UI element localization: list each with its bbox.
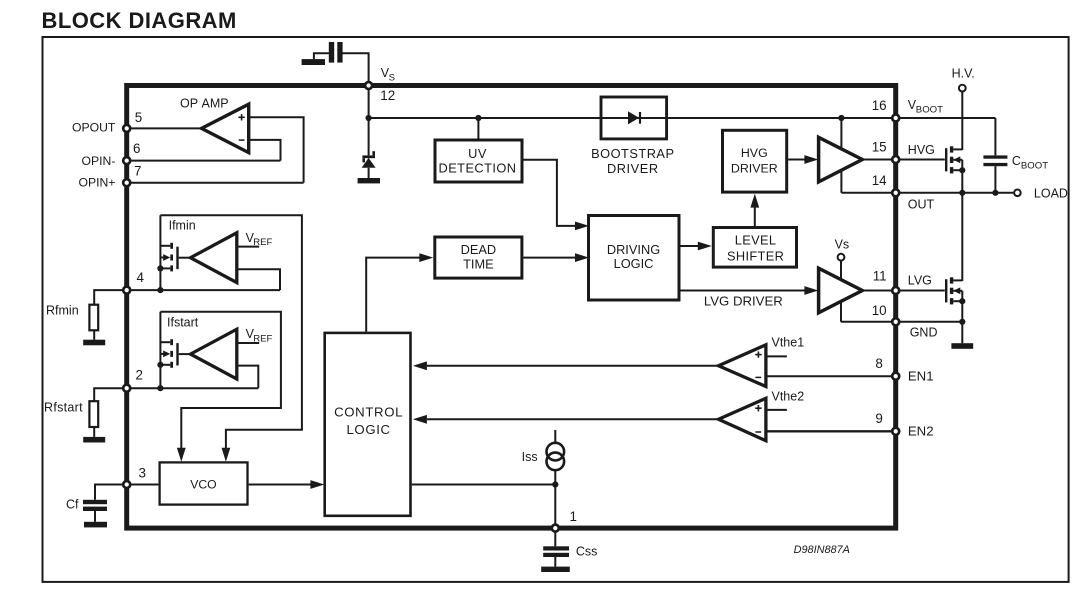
wire pin 7 line [127, 182, 304, 184]
op-amp + sign [238, 117, 244, 119]
terminal LOAD [1014, 190, 1021, 197]
wire driving-logic to level-shifter [681, 245, 699, 247]
svg-text:REF: REF [253, 333, 272, 344]
resistor Rfstart [89, 401, 98, 427]
svg-text:Rfstart: Rfstart [44, 400, 83, 414]
svg-text:6: 6 [133, 141, 140, 156]
terminal H.V. [959, 85, 966, 92]
block level-shifter box [713, 228, 796, 268]
svg-text:OP AMP: OP AMP [180, 97, 229, 111]
buffer LVG triangle [819, 268, 863, 313]
svg-text:LOGIC: LOGIC [614, 256, 654, 271]
svg-text:Css: Css [576, 544, 598, 558]
wire Iss stem [554, 430, 556, 443]
wire UV-detection to driving-logic [524, 160, 576, 226]
op-amp (OP AMP) triangle [202, 104, 249, 152]
transistor Q1 source lead [953, 169, 962, 171]
comparator Ifstart triangle [191, 329, 237, 379]
comparator Ifmin triangle [191, 233, 237, 283]
svg-text:OPIN+: OPIN+ [78, 176, 115, 190]
svg-text:BOOT: BOOT [916, 105, 943, 116]
wire VCO output to control-logic [249, 484, 311, 486]
svg-text:C: C [1012, 154, 1021, 168]
pin 5 (OPOUT) [123, 125, 130, 132]
svg-text:2: 2 [136, 367, 143, 382]
pin 3 [123, 481, 130, 488]
wire Ifstart box outline / feedback to VCO [160, 312, 281, 449]
ground (Rfmin) [83, 340, 105, 346]
wire Ifstart comparator Vref stub [237, 342, 259, 344]
wire Cboot top lead [994, 118, 996, 155]
wire Q2 drain to OUT [961, 193, 963, 281]
svg-text:Ifstart: Ifstart [167, 316, 199, 330]
svg-text:1: 1 [570, 509, 577, 524]
svg-text:3: 3 [139, 465, 146, 480]
transistor Q2 source lead [953, 300, 962, 302]
pin 15 (HVG) [892, 156, 899, 163]
wire pin 3 to Cf [95, 485, 127, 500]
node pin2 rail junction [157, 385, 163, 391]
wire Ifstart comparator lower input [237, 366, 258, 389]
wire pin 15 to Q1 gate [898, 159, 945, 161]
arrowhead Ifmin feedback to VCO [222, 448, 231, 462]
svg-text:SHIFTER: SHIFTER [727, 248, 784, 263]
arrowhead level-shifter to HVG-driver [750, 194, 759, 208]
wire HVG-driver to HVG buffer [788, 159, 805, 161]
svg-text:BLOCK DIAGRAM: BLOCK DIAGRAM [42, 8, 237, 33]
svg-text:DETECTION: DETECTION [439, 160, 517, 175]
transistor Ifstart channel bars [170, 339, 173, 345]
node Ifstart source on rail [157, 362, 163, 368]
transistor Q2 body lead [953, 290, 962, 292]
transistor Ifstart source lead [160, 364, 170, 366]
capacitor (Vs decoupling) plates [329, 42, 334, 63]
ground (Css) [541, 567, 570, 572]
buffer HVG triangle [819, 137, 863, 182]
IC boundary (thick box) [127, 86, 896, 529]
wire Vthe1 output to control-logic [427, 365, 719, 367]
pin 11 (LVG) [892, 287, 899, 294]
wire HVG buffer output to pin 15 [862, 159, 894, 161]
pin 8 (EN1) [892, 373, 899, 380]
svg-text:Vthe2: Vthe2 [772, 390, 805, 404]
wire Cboot bottom lead [994, 166, 996, 193]
node OUT at Q1 source [959, 190, 965, 196]
capacitor Cboot plates [983, 155, 1007, 158]
diode (bootstrap) triangle [628, 111, 639, 124]
svg-text:LEVEL: LEVEL [735, 232, 777, 247]
pin 1 (Css) [552, 525, 559, 532]
comparator Vthe1 - sign [755, 377, 761, 379]
pin 16 (Vboot) [892, 115, 899, 122]
svg-text:7: 7 [134, 163, 141, 178]
svg-text:GND: GND [910, 326, 938, 340]
wire pin 16 Vboot external [898, 117, 995, 119]
svg-text:EN2: EN2 [908, 424, 934, 439]
wire dead-time to driving-logic [523, 257, 575, 259]
svg-text:12: 12 [380, 88, 395, 103]
transistor Q1 gate bar [945, 148, 947, 171]
wire pin 11 to Q2 gate [898, 290, 945, 292]
wire Vs terminal to GND (LVG buffer supply) [840, 261, 842, 322]
transistor Q1 drain lead [953, 148, 962, 150]
transistor Ifmin source lead [160, 267, 170, 269]
svg-text:DEAD: DEAD [461, 242, 497, 257]
wire Vboot down to OUT (buffer supply) [840, 118, 842, 193]
wire GND node to ground symbol [961, 322, 963, 343]
svg-text:DRIVER: DRIVER [731, 161, 778, 175]
transistor Ifmin body lead [160, 257, 165, 259]
pin 9 (EN2) [892, 428, 899, 435]
svg-text:LOGIC: LOGIC [346, 422, 390, 437]
svg-text:Vthe1: Vthe1 [772, 335, 805, 349]
transistor Q2 drain lead [953, 279, 962, 281]
wire Rfmin to ground [93, 330, 95, 339]
wire Vthe1 + reference stub [766, 355, 787, 357]
wire pin 4 to Rfmin [94, 290, 127, 305]
svg-text:DRIVER: DRIVER [607, 161, 659, 176]
transistor Ifstart gate bar [176, 343, 178, 365]
svg-text:Cf: Cf [66, 498, 79, 512]
arrowhead control-logic to dead-time [419, 253, 433, 262]
svg-text:Iss: Iss [522, 450, 538, 464]
pin 7 (OPIN+) [123, 179, 130, 186]
transistor Q1 body arrow [953, 156, 960, 163]
svg-text:CONTROL: CONTROL [334, 404, 403, 419]
wire control-logic to Iss node [412, 484, 556, 486]
block control-logic box [325, 333, 411, 516]
node Q1 source/body junction [959, 167, 965, 173]
wire LVG buffer output to pin 11 [862, 290, 894, 292]
wire OUT to pin 14 [841, 192, 893, 194]
svg-text:8: 8 [875, 356, 882, 371]
zener D1 anode wire [368, 168, 370, 178]
op-amp - sign [239, 139, 245, 141]
wire Cf to ground [94, 511, 96, 522]
node Ifmin source on rail [157, 265, 163, 271]
node Iss output junction [552, 481, 558, 487]
capacitor Cf plates [83, 500, 107, 504]
comparator Vthe2 - sign [755, 431, 761, 433]
transistor Q2 (low-side MOSFET) channel bars [950, 277, 953, 283]
svg-text:4: 4 [137, 270, 145, 285]
wire pin 2 to Rfstart [94, 388, 127, 401]
wire LVG driver line [681, 290, 806, 292]
pin 12 (Vs) [365, 82, 372, 89]
ground (Rfstart) [83, 437, 105, 443]
wire cap to pin 12 [343, 53, 369, 85]
svg-text:10: 10 [872, 303, 887, 318]
transistor Ifstart body arrow [163, 351, 170, 358]
zener D1 cathode wire [368, 118, 370, 155]
wire pin 6 line [127, 160, 281, 162]
wire pin 8 EN1 to Vthe1 - [766, 375, 894, 377]
svg-text:H.V.: H.V. [952, 67, 975, 81]
svg-text:LOAD: LOAD [1034, 186, 1068, 200]
arrowhead HVG-driver to buffer [804, 155, 818, 164]
node HVG supply junction [838, 115, 844, 121]
node Q2 source/body junction [959, 298, 965, 304]
pin 10 (GND) [892, 318, 899, 325]
block HVG-driver box [723, 130, 787, 192]
wire Q1 body to source [961, 160, 963, 170]
svg-text:15: 15 [872, 139, 887, 154]
arrowhead Vthe2 to control-logic [413, 415, 427, 424]
wire Css to ground [554, 557, 556, 567]
wire Ifmin comparator lower input [237, 269, 280, 290]
svg-text:HVG: HVG [741, 146, 768, 160]
node pin4 rail junction [157, 287, 163, 293]
transistor Ifmin gate bar [176, 247, 178, 269]
resistor Rfmin [89, 305, 98, 331]
comparator Vthe1 + sign [755, 354, 761, 356]
transistor Ifstart body lead [160, 353, 165, 355]
svg-text:5: 5 [135, 110, 142, 125]
transistor Q1 (high-side MOSFET) channel bars [950, 146, 953, 152]
wire Vthe2 output to control-logic [427, 418, 719, 420]
transistor Q2 body arrow [953, 287, 960, 294]
arrowhead UV-detection to driving-logic [575, 222, 589, 231]
comparator Vthe2 + sign [755, 407, 761, 409]
transistor Q1 body lead [953, 159, 962, 161]
wire Ifstart left rail [159, 312, 161, 389]
svg-text:UV: UV [468, 146, 487, 161]
ground (Cf) [84, 522, 107, 528]
block bootstrap-driver box [601, 97, 667, 139]
svg-text:S: S [389, 72, 395, 83]
svg-text:Vs: Vs [835, 238, 850, 252]
svg-text:OUT: OUT [908, 197, 935, 211]
svg-text:11: 11 [873, 268, 887, 283]
pin 6 (OPIN-) [123, 157, 130, 164]
transistor Ifmin channel bars [170, 243, 173, 249]
arrowhead driving-logic to level-shifter [698, 242, 712, 251]
node OUT at Cboot [992, 190, 998, 196]
svg-text:OPOUT: OPOUT [72, 121, 116, 135]
capacitor Css plates [543, 546, 569, 550]
wire pin 1 to Css [554, 528, 556, 546]
ground (Vs cap) [302, 59, 325, 65]
zener D1 anode triangle [362, 158, 376, 168]
wire Ifmin comparator Vref stub [237, 246, 259, 248]
svg-text:Ifmin: Ifmin [169, 219, 196, 233]
arrowhead VCO to control-logic [310, 480, 324, 489]
block driving-logic box [589, 216, 680, 301]
wire pin12 down to Vboot rail [368, 86, 370, 119]
block dead-time box [435, 237, 522, 278]
wire GND to pin 10 [841, 321, 894, 323]
wire pin 10 GND external [898, 321, 962, 323]
wire H.V. to Q1 drain [961, 92, 963, 150]
wire Q1 source to OUT [961, 170, 963, 193]
svg-text:OPIN-: OPIN- [82, 154, 116, 168]
transistor Ifstart drain lead [160, 341, 170, 343]
transistor Ifmin drain lead [160, 245, 170, 247]
wire level-shifter to HVG-driver [754, 207, 756, 226]
node pin12/Vboot rail junction [366, 115, 372, 121]
wire Ifmin left rail [159, 215, 161, 290]
svg-text:14: 14 [872, 173, 887, 188]
arrowhead LVG driver line to buffer [804, 286, 818, 295]
wire pin 5 to op-amp output [127, 127, 202, 129]
svg-text:LVG: LVG [908, 273, 932, 287]
svg-text:D98IN887A: D98IN887A [794, 544, 850, 556]
wire Vboot rail to pin 16 [369, 117, 894, 119]
wire Q2 body to source [961, 291, 963, 301]
wire Ifmin box outline / feedback to VCO [160, 215, 302, 449]
terminal Vs (LVG buffer) [838, 254, 845, 261]
comparator Vthe1 triangle [719, 345, 766, 387]
svg-text:LVG DRIVER: LVG DRIVER [704, 293, 783, 308]
transistor Q2 gate bar [945, 279, 947, 302]
node UV stem junction [475, 115, 481, 121]
wire Iss to pin 1 [554, 470, 556, 528]
diode (bootstrap) cathode bar [639, 112, 641, 124]
zener D1 cathode hook left [362, 158, 365, 162]
svg-text:9: 9 [875, 411, 882, 426]
svg-text:HVG: HVG [908, 143, 935, 157]
wire control-logic to dead-time [366, 258, 420, 332]
wire pin 2 line [127, 387, 259, 389]
wire Q2 source to GND [961, 301, 963, 322]
wire OUT external to LOAD [898, 192, 1014, 194]
wire Vs-cap ground lead [314, 53, 329, 59]
ground (zener) [358, 178, 380, 183]
pin 4 [123, 287, 130, 294]
svg-text:EN1: EN1 [908, 368, 934, 383]
current source Iss (two circles) [547, 443, 565, 461]
pin 14 (OUT) [892, 189, 899, 196]
wire Rfstart to ground [93, 427, 95, 437]
node GND at Q2 source [959, 319, 965, 325]
pin 2 [123, 385, 130, 392]
svg-text:BOOTSTRAP: BOOTSTRAP [591, 146, 674, 161]
wire UV-detection stem [477, 118, 479, 140]
arrowhead Vthe1 to control-logic [413, 361, 427, 370]
arrowhead dead-time to driving-logic [575, 253, 589, 262]
svg-text:VCO: VCO [190, 477, 216, 491]
block U-V detection box [435, 140, 522, 182]
wire op-amp + input to pin 7 [249, 117, 304, 182]
arrowhead Ifstart feedback to VCO [177, 448, 186, 462]
zener D1 cathode hook right [372, 151, 375, 155]
zener D1 cathode bar [362, 155, 375, 158]
wire Ifmin gate to comparator [179, 257, 191, 259]
svg-text:TIME: TIME [463, 257, 494, 272]
block VCO box [160, 462, 248, 504]
wire Vthe2 + reference stub [766, 409, 787, 411]
wire Ifstart gate to comparator [179, 353, 191, 355]
wire pin 9 EN2 to Vthe2 - [766, 430, 894, 432]
comparator Vthe2 triangle [719, 398, 766, 440]
wire op-amp - input to pin 6 [249, 140, 281, 161]
wire pin 4 line [127, 289, 280, 291]
ground (power stage) [951, 343, 973, 349]
svg-text:REF: REF [253, 237, 272, 248]
svg-text:Rfmin: Rfmin [46, 304, 79, 318]
transistor Ifmin body arrow [163, 254, 170, 261]
svg-text:16: 16 [872, 98, 887, 113]
wire pin 3 to VCO [127, 484, 159, 486]
svg-text:BOOT: BOOT [1021, 161, 1048, 172]
